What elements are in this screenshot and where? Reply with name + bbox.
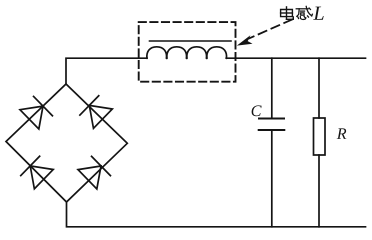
dashed enclosure box around inductor xyxy=(139,22,236,82)
capacitor C branch wire (bottom) xyxy=(271,130,273,227)
inductor core bar xyxy=(150,40,232,42)
resistor R body xyxy=(314,118,326,155)
inductor L coil xyxy=(147,47,227,59)
diode D3 (lower-left, cathode toward left node) xyxy=(21,156,53,189)
label 感 (gan) drawn glyph xyxy=(296,6,312,19)
resistor R branch wire (bottom) xyxy=(318,155,320,227)
wire top rail xyxy=(66,58,366,84)
label R (resistor reference) xyxy=(337,128,347,139)
label C (capacitor reference) xyxy=(252,105,262,116)
diode D1 (upper-left, cathode toward top node) xyxy=(20,96,52,129)
diode D2 (upper-right, cathode toward top node) xyxy=(80,96,112,129)
dashed leader arrow line to inductor xyxy=(249,20,292,39)
leader arrowhead xyxy=(237,35,253,45)
wire bottom rail xyxy=(67,202,366,227)
diode D4 (lower-right, cathode toward right node) xyxy=(78,156,110,189)
label L (inductor reference) xyxy=(313,7,323,20)
resistor R branch wire (top) xyxy=(318,58,320,118)
wire bridge diamond xyxy=(6,84,127,202)
capacitor C plates xyxy=(259,119,285,131)
capacitor C branch wire (top) xyxy=(271,58,273,118)
label 电 (dian) drawn glyph xyxy=(281,7,294,19)
